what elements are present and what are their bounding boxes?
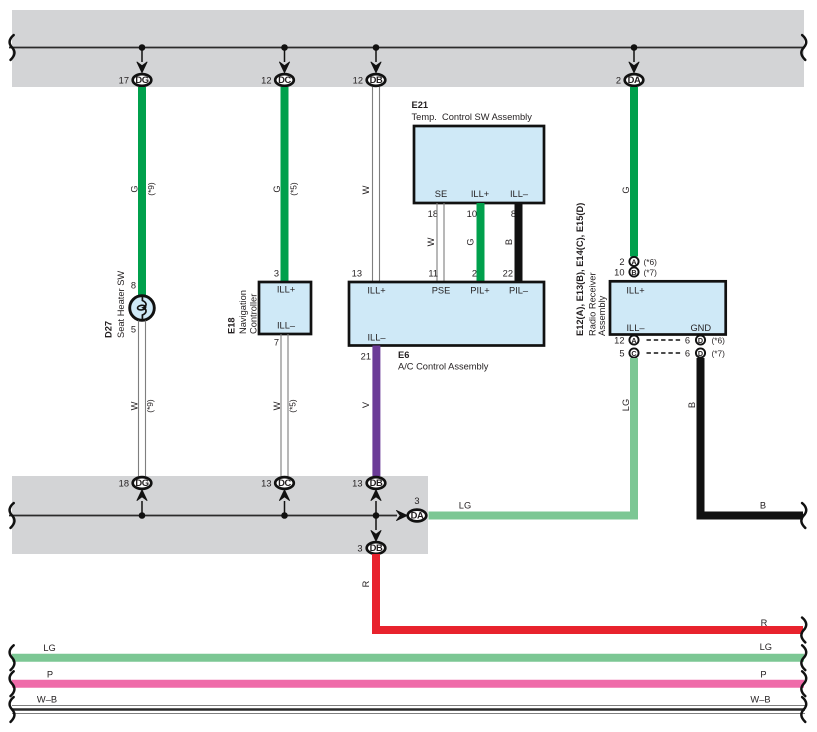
- svg-text:G: G: [130, 185, 140, 192]
- svg-text:10: 10: [614, 268, 624, 278]
- svg-text:(*7): (*7): [712, 348, 726, 358]
- box E6 A/C Control Assembly: [349, 282, 544, 346]
- svg-text:(*5): (*5): [289, 182, 299, 196]
- svg-text:DG: DG: [135, 74, 148, 85]
- svg-text:B: B: [760, 501, 766, 511]
- wire P bottom bus: [12, 680, 804, 688]
- svg-text:V: V: [361, 401, 371, 408]
- svg-text:ILL+: ILL+: [471, 189, 489, 199]
- svg-text:(*7): (*7): [644, 268, 658, 278]
- svg-text:3: 3: [414, 496, 419, 506]
- svg-text:DA: DA: [628, 74, 641, 85]
- svg-text:(*6): (*6): [712, 335, 726, 345]
- svg-text:P: P: [760, 670, 766, 680]
- box E18 Navigation Controller: [259, 282, 311, 334]
- bus wire lower: [9, 515, 397, 517]
- connector DB lower: [367, 477, 386, 489]
- node dot DG top: [139, 44, 146, 51]
- svg-text:R: R: [361, 580, 371, 587]
- break W-B right: [801, 697, 806, 722]
- connector DB top: [367, 74, 386, 86]
- node dot DA top: [631, 44, 638, 51]
- seat heater switch D27 (illumination bulb): [130, 296, 155, 321]
- svg-text:G: G: [272, 185, 282, 192]
- svg-text:W: W: [130, 401, 140, 410]
- svg-text:8: 8: [131, 281, 136, 291]
- wire V from E6 pin 21 to lower DB: [372, 346, 380, 477]
- arrow to DG lower: [141, 501, 143, 516]
- svg-text:W: W: [361, 185, 371, 194]
- svg-text:17: 17: [119, 76, 129, 86]
- wire W from DB to E6 pin 13: [372, 87, 374, 282]
- svg-text:2: 2: [616, 76, 621, 86]
- svg-text:ILL–: ILL–: [510, 189, 529, 199]
- node dot DC lower: [281, 512, 288, 519]
- svg-text:PSE: PSE: [432, 286, 451, 296]
- break lower-left: [10, 503, 15, 528]
- svg-text:ILL+: ILL+: [367, 286, 385, 296]
- radio pin A: [629, 257, 638, 266]
- arrow to DB top: [375, 48, 377, 63]
- node dot DG lower: [139, 512, 146, 519]
- svg-text:11: 11: [428, 269, 438, 279]
- break B right: [801, 503, 806, 528]
- svg-text:A: A: [631, 336, 636, 345]
- svg-text:Controller: Controller: [249, 294, 259, 334]
- wire W from D27 pin 5 to lower DG: [138, 321, 140, 477]
- svg-text:R: R: [761, 618, 768, 628]
- node dot DB lower: [373, 512, 380, 519]
- svg-text:10: 10: [467, 209, 477, 219]
- svg-text:B: B: [631, 268, 636, 277]
- wire LG bottom bus: [12, 654, 804, 662]
- junction block band top: [12, 10, 804, 87]
- svg-text:12: 12: [614, 335, 624, 345]
- wire B from radio GND down and right: [701, 358, 804, 516]
- wire G from DG to D27 pin 8: [138, 87, 146, 296]
- dashed link A-D: [647, 339, 683, 341]
- svg-text:5: 5: [619, 348, 624, 358]
- wire G E21 ILL+ to E6 PIL+: [477, 203, 485, 282]
- svg-text:(*9): (*9): [146, 182, 156, 196]
- arrow to DC top: [284, 48, 286, 63]
- wire W from E18 pin 7 to lower DC: [280, 334, 282, 476]
- break top-left: [10, 35, 15, 60]
- wire LG from radio ILL- down and left to DA: [429, 358, 635, 516]
- dashed link C-D: [647, 352, 683, 354]
- svg-text:6: 6: [685, 348, 690, 358]
- arrow right to DA: [396, 510, 407, 520]
- connector DG top: [133, 74, 152, 86]
- arrow to DA top: [633, 48, 635, 63]
- svg-text:W: W: [426, 237, 436, 246]
- wire W E21 SE to E6 PSE: [436, 203, 438, 282]
- svg-text:18: 18: [119, 479, 129, 489]
- wire W-B bottom bus: [12, 705, 805, 707]
- box E12 Radio Receiver Assembly: [610, 281, 726, 334]
- svg-text:G: G: [466, 238, 476, 245]
- radio pin B: [629, 267, 638, 276]
- svg-text:B: B: [687, 402, 697, 408]
- svg-text:E6: E6: [398, 350, 409, 360]
- svg-text:W: W: [272, 401, 282, 410]
- svg-text:(*6): (*6): [644, 257, 658, 267]
- break top-right: [801, 35, 806, 60]
- svg-text:12: 12: [353, 76, 363, 86]
- wire R from DB bottom down and right: [376, 554, 803, 630]
- svg-text:Radio Receiver: Radio Receiver: [588, 272, 598, 336]
- svg-text:ILL–: ILL–: [277, 321, 296, 331]
- svg-text:7: 7: [274, 338, 279, 348]
- svg-text:13: 13: [261, 479, 271, 489]
- svg-text:Navigation: Navigation: [238, 290, 248, 334]
- svg-text:PIL+: PIL+: [470, 286, 489, 296]
- break LG right: [801, 645, 806, 670]
- svg-text:ILL+: ILL+: [626, 286, 644, 296]
- junction block band lower: [12, 476, 428, 554]
- svg-text:Assembly: Assembly: [597, 295, 607, 336]
- svg-text:A: A: [631, 257, 636, 266]
- svg-text:3: 3: [357, 544, 362, 554]
- svg-text:D27: D27: [104, 321, 114, 338]
- wire G from DC to E18 pin 3: [281, 87, 289, 282]
- svg-text:DA: DA: [411, 510, 424, 521]
- svg-text:Temp. Control SW Assembly: Temp. Control SW Assembly: [412, 112, 533, 122]
- svg-text:ILL–: ILL–: [626, 323, 645, 333]
- svg-text:E18: E18: [227, 317, 237, 334]
- connector DA top: [625, 74, 644, 86]
- svg-text:5: 5: [131, 325, 136, 335]
- svg-text:3: 3: [274, 269, 279, 279]
- svg-text:SE: SE: [435, 189, 447, 199]
- radio pin D lower: [696, 348, 705, 357]
- svg-text:G: G: [621, 186, 631, 193]
- svg-text:DC: DC: [278, 477, 291, 488]
- svg-text:D: D: [698, 336, 703, 345]
- break P left: [10, 671, 15, 696]
- arrow to DC lower: [284, 501, 286, 516]
- svg-text:DB: DB: [370, 74, 383, 85]
- wire G from DA to radio A/B: [630, 87, 638, 257]
- bus wire top: [9, 47, 805, 49]
- svg-text:C: C: [631, 349, 636, 358]
- svg-text:12: 12: [261, 76, 271, 86]
- svg-text:(*9): (*9): [145, 399, 155, 413]
- connector DA lower: [408, 510, 427, 522]
- wire B E21 ILL- to E6 PIL-: [515, 203, 523, 282]
- svg-text:W–B: W–B: [37, 695, 57, 705]
- svg-text:(*5): (*5): [288, 399, 298, 413]
- svg-text:2: 2: [619, 257, 624, 267]
- arrow to DB lower: [375, 501, 377, 516]
- svg-text:ILL+: ILL+: [277, 285, 295, 295]
- connector DG lower: [133, 477, 152, 489]
- svg-text:ILL–: ILL–: [367, 333, 386, 343]
- svg-text:21: 21: [361, 352, 371, 362]
- break R right: [801, 618, 806, 643]
- svg-text:DB: DB: [370, 477, 383, 488]
- break W-B left: [10, 697, 15, 722]
- svg-text:D: D: [698, 349, 703, 358]
- svg-text:Seat Heater SW: Seat Heater SW: [116, 271, 126, 338]
- svg-text:P: P: [47, 670, 53, 680]
- node dot DB top: [373, 44, 380, 51]
- connector DB bottom: [367, 542, 386, 554]
- svg-text:18: 18: [428, 209, 438, 219]
- arrow to DG top: [141, 48, 143, 63]
- svg-text:22: 22: [503, 269, 513, 279]
- svg-text:GND: GND: [690, 323, 711, 333]
- svg-text:DC: DC: [278, 74, 291, 85]
- svg-text:DG: DG: [135, 477, 148, 488]
- node dot DC top: [281, 44, 288, 51]
- svg-text:LG: LG: [459, 501, 471, 511]
- svg-text:B: B: [504, 239, 514, 245]
- connector DC lower: [275, 477, 294, 489]
- svg-text:LG: LG: [760, 642, 772, 652]
- radio pin D upper: [696, 335, 705, 344]
- svg-text:LG: LG: [621, 399, 631, 411]
- svg-text:13: 13: [352, 269, 362, 279]
- svg-text:W–B: W–B: [750, 695, 770, 705]
- svg-text:2: 2: [472, 269, 477, 279]
- svg-text:A/C Control Assembly: A/C Control Assembly: [398, 362, 489, 372]
- arrow down to DB bottom: [375, 516, 377, 531]
- svg-text:6: 6: [685, 335, 690, 345]
- svg-text:E12(A), E13(B), E14(C), E15(D): E12(A), E13(B), E14(C), E15(D): [575, 203, 585, 336]
- svg-text:DB: DB: [370, 542, 383, 553]
- break LG left: [10, 645, 15, 670]
- break P right: [801, 671, 806, 696]
- svg-text:E21: E21: [412, 100, 429, 110]
- svg-text:PIL–: PIL–: [509, 286, 529, 296]
- connector DC top: [275, 74, 294, 86]
- svg-text:LG: LG: [43, 643, 55, 653]
- svg-text:13: 13: [352, 479, 362, 489]
